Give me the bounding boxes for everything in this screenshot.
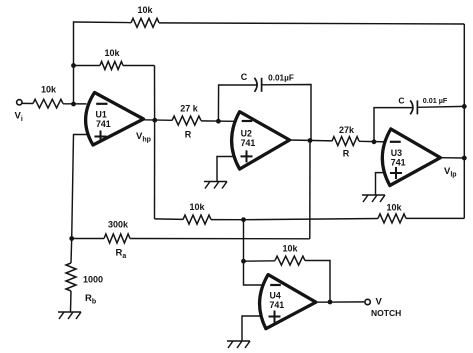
op-amp U3 741 <box>382 129 440 186</box>
wire summing line right <box>244 219 379 220</box>
wire U3 integrator cap left <box>374 108 413 142</box>
resistor R4 10k (notch from Vlp) <box>378 214 406 223</box>
wire U2 integrator cap right <box>262 85 311 141</box>
wire U2 noninverting to ground <box>217 157 234 182</box>
svg-text:27 k: 27 k <box>180 104 199 114</box>
svg-text:C: C <box>398 96 404 106</box>
wire U1 feedback top <box>74 65 101 67</box>
wire U4 noninverting to ground <box>242 316 261 341</box>
wire Vbp down to damping resistor <box>309 141 311 239</box>
svg-text:C: C <box>241 72 248 82</box>
svg-text:10k: 10k <box>137 5 153 15</box>
svg-text:741: 741 <box>241 138 256 148</box>
resistor R1 27k <box>172 116 201 125</box>
wire Ra line <box>130 238 310 240</box>
svg-text:300k: 300k <box>108 220 129 230</box>
resistor R-top 10k <box>131 18 159 27</box>
wire U3 integrator cap right <box>418 105 465 108</box>
svg-text:741: 741 <box>96 119 111 129</box>
wire summing node down to U4 <box>244 220 263 285</box>
svg-text:10k: 10k <box>386 203 402 213</box>
svg-text:741: 741 <box>391 157 406 167</box>
capacitor C1 0.01uF <box>254 78 257 92</box>
wire Vhp down to summing line <box>154 120 156 219</box>
wire U1 noninverting input <box>72 135 87 239</box>
wire node A to Rb <box>70 239 73 264</box>
wire U1 feedback down to Vhp node <box>154 66 156 121</box>
svg-text:741: 741 <box>270 300 285 310</box>
wire U3 noninverting to ground <box>376 173 385 195</box>
wire U2 integrator cap left <box>218 85 256 121</box>
junction node A <box>69 236 74 241</box>
resistor Rb 1000 <box>66 263 76 291</box>
resistor R3 10k (notch from Vhp) <box>183 215 211 224</box>
svg-text:R: R <box>343 149 350 159</box>
junction U3 inverting input <box>372 139 377 144</box>
junction U2 inverting input <box>216 119 221 124</box>
terminal Vi input <box>17 100 22 105</box>
wire U3 output Vlp <box>440 157 464 159</box>
junction U4 feedback node <box>241 259 246 264</box>
svg-text:V: V <box>376 297 383 308</box>
resistor R-fb1 10k (U1 feedback) <box>100 62 123 70</box>
wire U4 feedback <box>244 260 276 262</box>
junction cap to right rail <box>462 104 467 109</box>
ground Rb <box>58 312 81 319</box>
wire input <box>22 102 33 104</box>
junction U2 output Vbp <box>308 138 313 143</box>
ground U3 <box>362 195 385 202</box>
svg-text:10k: 10k <box>41 85 57 95</box>
capacitor C2 0.01uF <box>410 100 413 114</box>
ground U2 <box>204 182 227 189</box>
svg-text:10k: 10k <box>104 48 120 58</box>
svg-text:U2: U2 <box>241 129 252 139</box>
svg-text:10k: 10k <box>189 202 205 212</box>
resistor R5 10k (U4 feedback) <box>275 256 305 265</box>
ground U4 <box>227 341 250 348</box>
junction U1 inverting input <box>71 102 76 107</box>
wire top feedback (Vlp to U1 inverting node) <box>74 21 132 24</box>
svg-text:1000: 1000 <box>83 275 103 285</box>
svg-text:27k: 27k <box>339 125 355 135</box>
wire U2 output <box>290 139 332 142</box>
wire right rail <box>463 24 465 218</box>
junction notch summing node <box>241 217 246 222</box>
junction U4 output <box>328 300 333 305</box>
resistor R2 27k <box>332 137 359 146</box>
svg-text:R: R <box>185 129 192 139</box>
junction Vhp node <box>152 118 157 123</box>
svg-text:U1: U1 <box>96 110 107 120</box>
wire Rb to ground <box>70 291 73 312</box>
wire U1 output <box>144 119 173 122</box>
junction U1 feedback node <box>71 63 76 68</box>
wire summing line left <box>155 218 184 221</box>
resistor R-in 10k (input) <box>33 99 63 108</box>
wire left vertical to U1 inverting input <box>73 21 75 104</box>
svg-text:0.01 µF: 0.01 µF <box>423 96 448 105</box>
svg-text:NOTCH: NOTCH <box>371 308 401 318</box>
svg-text:0.01µF: 0.01µF <box>268 74 294 83</box>
op-amp U2 741 <box>232 112 290 169</box>
svg-text:10k: 10k <box>282 244 298 254</box>
op-amp U1 741 <box>86 93 144 146</box>
op-amp U4 741 <box>260 275 316 329</box>
terminal V notch output <box>365 299 370 304</box>
resistor Ra 300k <box>104 234 130 243</box>
junction Vlp node <box>462 156 467 161</box>
wire U4 output <box>316 301 364 303</box>
